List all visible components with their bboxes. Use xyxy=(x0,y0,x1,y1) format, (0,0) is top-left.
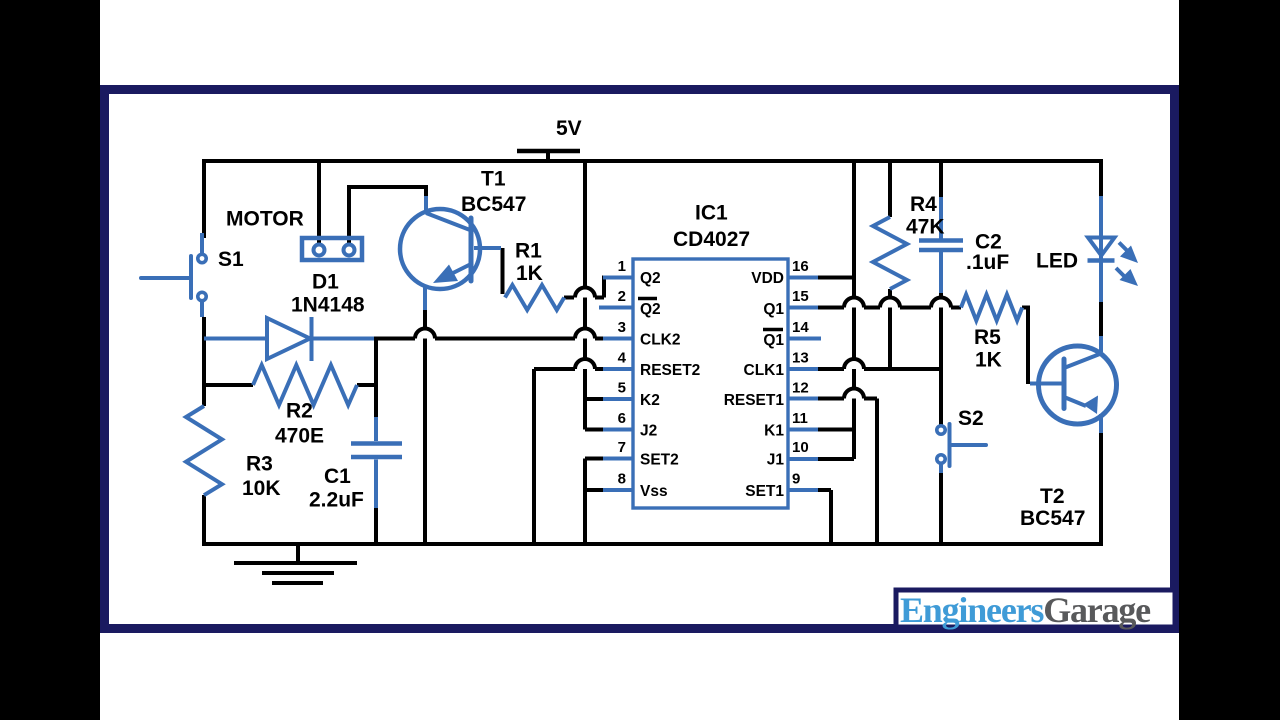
svg-text:R3: R3 xyxy=(246,453,273,476)
svg-text:VDD: VDD xyxy=(751,270,784,287)
svg-text:RESET2: RESET2 xyxy=(640,362,700,379)
wire: RESET2 net (y=369) xyxy=(534,367,575,371)
wire: pin9 SET1 stub xyxy=(818,488,831,492)
svg-text:K2: K2 xyxy=(640,392,660,409)
IC pin labels xyxy=(638,270,784,500)
resistor R4 xyxy=(873,217,907,289)
5V supply symbol xyxy=(517,117,582,161)
wire: R2 right lead xyxy=(357,383,376,387)
svg-text:16: 16 xyxy=(792,258,809,275)
svg-text:J1: J1 xyxy=(767,452,785,469)
wire: R4 bottom lead down to CLK1 net xyxy=(888,289,892,369)
transistor T1 xyxy=(400,196,501,310)
wire: C2 bottom lead down to CLK1 net and S2 xyxy=(939,292,943,426)
pin 12 stub xyxy=(788,397,818,401)
wire: R2 left lead xyxy=(204,383,253,387)
pin 6 stub xyxy=(603,428,633,432)
svg-text:1K: 1K xyxy=(975,349,1002,372)
pin 14 stub xyxy=(788,337,821,341)
svg-text:Q1: Q1 xyxy=(763,301,784,318)
pin 4 stub xyxy=(603,367,633,371)
wire: IC left vertical (K2/J2 to +5V) xyxy=(583,161,587,430)
svg-text:BC547: BC547 xyxy=(461,193,526,216)
svg-text:.1uF: .1uF xyxy=(966,251,1009,274)
svg-text:R4: R4 xyxy=(910,193,937,216)
wire: pin11 K1 stub xyxy=(818,428,854,432)
resistor R3 xyxy=(186,406,222,495)
svg-text:MOTOR: MOTOR xyxy=(226,208,304,231)
svg-text:1: 1 xyxy=(618,258,626,275)
wire: pin10 J1 stub xyxy=(818,457,854,461)
svg-text:J2: J2 xyxy=(640,423,657,440)
resistor R5 xyxy=(961,295,1022,321)
wire: R1 elbow up to pin1 xyxy=(602,276,606,298)
wire: SET2/Vss vertical to bottom bus xyxy=(583,459,587,545)
BLUE COMPONENTS xyxy=(141,196,1138,508)
svg-text:D1: D1 xyxy=(312,271,339,294)
wire: R5 right elbow down to T2 base xyxy=(1022,308,1028,385)
wire: Q1 net to R5 (y=307.5) xyxy=(818,306,844,310)
svg-text:SET2: SET2 xyxy=(640,452,679,469)
svg-text:Vss: Vss xyxy=(640,483,668,500)
resistor R2 xyxy=(253,365,357,405)
pin 10 stub xyxy=(788,457,818,461)
svg-text:R2: R2 xyxy=(286,400,313,423)
svg-text:4: 4 xyxy=(618,350,627,367)
svg-text:8: 8 xyxy=(618,471,626,488)
horizontal nets with crossover humps xyxy=(374,278,961,491)
svg-text:EngineersGarage: EngineersGarage xyxy=(900,590,1151,630)
wire: motor right terminal elbow to T1 collector xyxy=(349,187,426,247)
wire: pin7 SET2 stub xyxy=(585,457,604,461)
switch S2 xyxy=(937,424,986,473)
svg-text:10K: 10K xyxy=(242,477,281,500)
wire: right vertical A VDD/K1/J1 to +5V xyxy=(852,161,856,459)
svg-text:Q1: Q1 xyxy=(763,332,784,349)
EngineersGarage logo xyxy=(896,590,1175,630)
pin 1 stub xyxy=(603,276,633,280)
pin 7 stub xyxy=(603,457,633,461)
wire: D1/R2 junction vertical to C1 xyxy=(374,337,378,417)
wire: motor left terminal to top bus xyxy=(317,161,321,247)
wire: S2 bottom to bottom bus xyxy=(939,472,943,544)
svg-text:T1: T1 xyxy=(481,168,506,191)
wire: R1 to pin1 Q2 (y=297.5) xyxy=(564,296,574,300)
pin 15 stub xyxy=(788,306,818,310)
svg-text:K1: K1 xyxy=(764,423,784,440)
svg-text:11: 11 xyxy=(792,410,808,427)
motor M1 xyxy=(302,238,362,260)
switch S1 xyxy=(141,233,206,317)
wire: pin8 Vss stub xyxy=(585,488,604,492)
wire: pin16 VDD to +5V rail xyxy=(818,276,854,280)
wire: pin5 K2 stub xyxy=(585,397,604,401)
svg-text:7: 7 xyxy=(618,439,626,456)
capacitor C2 xyxy=(919,197,963,293)
svg-text:5V: 5V xyxy=(556,117,582,140)
svg-text:R1: R1 xyxy=(515,240,542,263)
svg-text:T2: T2 xyxy=(1040,485,1065,508)
wire: C2 top lead to top bus xyxy=(939,161,943,197)
pin 16 stub xyxy=(788,276,818,280)
svg-text:9: 9 xyxy=(792,471,800,488)
svg-text:S2: S2 xyxy=(958,407,984,430)
svg-text:12: 12 xyxy=(792,380,809,397)
wire: left rail R3 to bottom bus xyxy=(202,495,206,544)
svg-text:CLK2: CLK2 xyxy=(640,332,680,349)
pin 9 stub xyxy=(788,488,818,492)
wire: pin9 SET1 down to bottom bus xyxy=(829,490,833,544)
BLACK WIRES xyxy=(202,161,1103,544)
svg-text:SET1: SET1 xyxy=(745,483,784,500)
svg-text:2: 2 xyxy=(618,288,626,305)
svg-text:C1: C1 xyxy=(324,465,351,488)
wire: T2 emitter to bottom bus xyxy=(1099,431,1103,544)
wire: pin12 RESET1 down to bottom bus xyxy=(875,399,879,545)
svg-text:15: 15 xyxy=(792,288,809,305)
svg-text:Q2: Q2 xyxy=(640,301,661,318)
pin 13 stub xyxy=(788,367,818,371)
wire: RESET1 net (y=398.5) xyxy=(818,397,844,401)
diode D1 xyxy=(204,317,374,361)
pin 5 stub xyxy=(603,397,633,401)
svg-text:RESET1: RESET1 xyxy=(724,392,785,409)
wire: CLK1 net (y=369) xyxy=(818,367,844,371)
transistor T2 xyxy=(1030,336,1117,433)
pin 3 stub xyxy=(603,337,633,341)
svg-text:CLK1: CLK1 xyxy=(744,362,785,379)
svg-text:IC1: IC1 xyxy=(695,202,728,225)
svg-text:Q2: Q2 xyxy=(640,270,661,287)
svg-text:CD4027: CD4027 xyxy=(673,228,750,251)
wire: T1 emitter vertical to bottom bus xyxy=(423,308,427,544)
LED D2 xyxy=(1088,196,1139,302)
capacitor C1 xyxy=(351,417,402,508)
wire: C1 bottom lead to bottom bus xyxy=(374,508,378,544)
wire: pin4 net vertical to bottom bus xyxy=(532,369,536,544)
svg-text:R5: R5 xyxy=(974,326,1001,349)
pin 2 stub xyxy=(599,306,633,310)
wire: CLK2 net (y=338.5) xyxy=(374,337,415,341)
svg-text:LED: LED xyxy=(1036,250,1078,273)
svg-text:470E: 470E xyxy=(275,425,324,448)
svg-text:2.2uF: 2.2uF xyxy=(309,489,364,512)
svg-text:13: 13 xyxy=(792,350,809,367)
svg-text:47K: 47K xyxy=(906,216,945,239)
wire: bottom ground bus xyxy=(202,542,1103,546)
svg-text:6: 6 xyxy=(618,410,626,427)
svg-text:S1: S1 xyxy=(218,248,244,271)
wire: R1 left elbow from T1 base xyxy=(501,248,505,294)
svg-text:1K: 1K xyxy=(516,262,543,285)
IC U1 body xyxy=(599,259,821,508)
svg-text:10: 10 xyxy=(792,439,809,456)
IC pin numbers xyxy=(618,258,810,488)
ground xyxy=(234,544,357,583)
svg-text:BC547: BC547 xyxy=(1020,507,1085,530)
pin 11 stub xyxy=(788,428,818,432)
svg-text:5: 5 xyxy=(618,380,626,397)
pin 8 stub xyxy=(603,488,633,492)
svg-text:3: 3 xyxy=(618,319,626,336)
wire: LED cathode to T2 collector xyxy=(1099,302,1103,338)
resistor R1 xyxy=(505,285,564,310)
wire: left rail S1 to R3 xyxy=(202,317,206,406)
svg-text:14: 14 xyxy=(792,319,809,336)
wire: pin6 J2 stub xyxy=(585,428,604,432)
svg-text:1N4148: 1N4148 xyxy=(291,294,365,317)
wire: R4 top lead to top bus xyxy=(888,161,892,217)
wire: left rail top + top supply bus + right corner to LED xyxy=(204,161,1101,238)
